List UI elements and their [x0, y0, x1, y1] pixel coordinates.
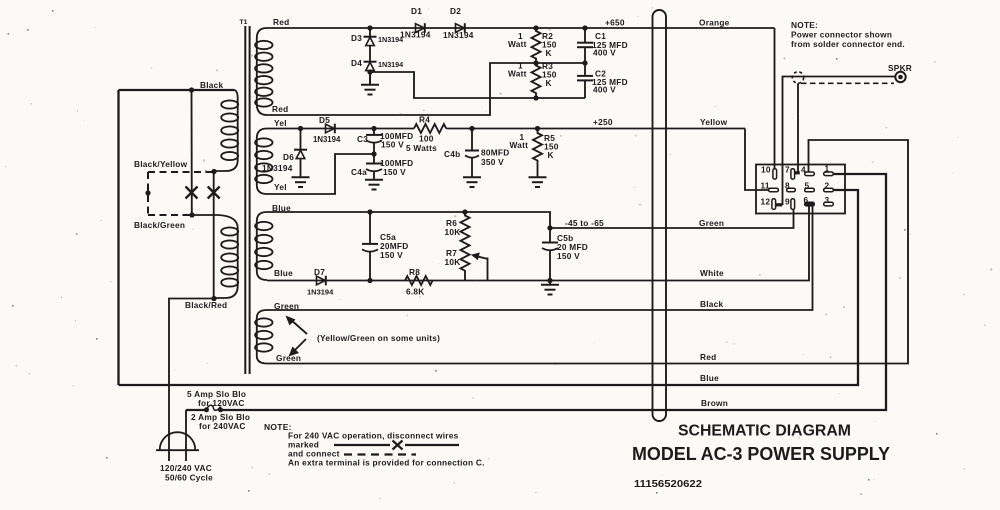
svg-text:K: K	[546, 48, 552, 58]
diode D1 1N3194	[400, 6, 431, 40]
potentiometer R7 10K	[445, 243, 470, 280]
resistor R2 150K 1 Watt	[508, 28, 557, 63]
svg-text:Watt: Watt	[510, 140, 529, 150]
node junction dot C5a top	[367, 209, 372, 214]
node C junction dot (Black/Green)	[189, 212, 194, 217]
capacitor C5a 20MFD 150V	[362, 212, 408, 281]
wire C3/C4a midpoint to Yel bottom	[267, 154, 374, 194]
svg-text:4: 4	[801, 164, 806, 174]
svg-text:+250: +250	[593, 117, 613, 127]
wire mains left (Black lead down left side)	[117, 90, 119, 385]
pin 3	[824, 195, 834, 206]
svg-text:Yellow: Yellow	[700, 117, 728, 127]
svg-text:80MFD: 80MFD	[481, 148, 509, 158]
cable oval grommet	[653, 10, 667, 421]
node junction dot D3 tap	[367, 25, 372, 30]
capacitor C3 100MFD 150V	[357, 129, 413, 155]
svg-text:D6: D6	[283, 152, 294, 162]
node junction dot C5b bottom	[547, 278, 552, 283]
node junction dot D6 tap	[298, 126, 303, 131]
wire White (bias out to pin 6)	[550, 206, 809, 281]
transformer T1 primary winding P1 (Black / Black-Yellow)	[215, 90, 239, 171]
svg-text:Red: Red	[273, 17, 289, 27]
node junction dot R2 top	[533, 25, 538, 30]
wire Orange drop to pin 10	[774, 28, 776, 169]
node junction dot R5 top	[535, 126, 540, 131]
pin 2	[824, 180, 834, 192]
transformer T1 secondary winding S3 (Blue)	[255, 212, 272, 280]
node junction dot R6 top	[462, 209, 467, 214]
ground below D4	[361, 72, 379, 95]
svg-text:8: 8	[785, 180, 790, 190]
node junction dot R2 bottom	[533, 60, 538, 65]
transformer T1 secondary winding S1 (Red)	[255, 28, 272, 115]
ground below C4b	[463, 177, 481, 187]
note solid line sample with X	[334, 441, 459, 450]
power connector body	[756, 165, 845, 214]
potentiometer R7 wiper arrow	[471, 253, 488, 281]
svg-text:Green: Green	[699, 218, 724, 228]
svg-text:C4a: C4a	[351, 167, 367, 177]
pin 1	[824, 164, 834, 176]
X disconnect mark 1	[186, 187, 198, 199]
wire Brown mains with fuse (to pin 1)	[186, 409, 205, 411]
pin 4	[801, 164, 814, 175]
svg-text:12: 12	[761, 196, 771, 206]
transformer T1 primary winding P2 (Black-Green / Black-Red)	[192, 215, 238, 298]
svg-text:7: 7	[785, 164, 790, 174]
svg-text:Black/Red: Black/Red	[185, 300, 227, 310]
note 240 VAC operation	[264, 422, 485, 468]
svg-text:D3: D3	[351, 33, 362, 43]
svg-text:from solder connector end.: from solder connector end.	[791, 39, 905, 49]
wire doubler midpoint rail	[267, 63, 585, 115]
wire circle to pin 7	[797, 83, 799, 172]
resistor R8 6.8K	[405, 267, 433, 297]
wire plug right prong	[185, 410, 187, 461]
pin 9	[785, 196, 795, 209]
svg-text:10: 10	[761, 164, 771, 174]
pin 11	[761, 180, 779, 192]
wire rail R4 to +250	[446, 128, 745, 130]
svg-text:Green: Green	[276, 353, 301, 363]
svg-text:K: K	[546, 78, 552, 88]
wire Red heater (to pin 4 via top)	[267, 140, 908, 364]
node B junction dot (Black/Yellow)	[211, 169, 216, 174]
ground below C5b	[541, 281, 559, 295]
capacitor C5b 20 MFD 150V	[542, 228, 588, 281]
pin 10	[761, 164, 777, 179]
svg-text:-45 to -65: -45 to -65	[565, 218, 604, 228]
note power connector	[791, 20, 905, 49]
node junction dot C5a bottom	[367, 278, 372, 283]
svg-text:1N3194: 1N3194	[307, 288, 334, 297]
wire rail C3 to R4	[374, 128, 414, 130]
svg-text:Red: Red	[700, 352, 716, 362]
diode D2 1N3194	[443, 6, 474, 40]
svg-text:5 Watts: 5 Watts	[406, 143, 437, 153]
svg-text:Red: Red	[272, 104, 288, 114]
svg-text:1: 1	[825, 164, 830, 174]
svg-text:100: 100	[419, 134, 434, 144]
transformer T1 core	[240, 19, 250, 374]
svg-text:1N3194: 1N3194	[262, 163, 293, 173]
capacitor C2 125 MFD 400V	[577, 63, 628, 98]
pin 8	[785, 180, 795, 192]
svg-text:Yel: Yel	[274, 182, 287, 192]
node A junction dot (Black)	[189, 87, 194, 92]
svg-text:for 240VAC: for 240VAC	[199, 421, 246, 431]
svg-text:R4: R4	[419, 115, 430, 125]
svg-text:1N3194: 1N3194	[313, 135, 341, 144]
ground below D6	[292, 177, 310, 187]
wire 120V strap 1 (X marked)	[191, 90, 193, 215]
svg-text:Yel: Yel	[274, 118, 287, 128]
diode D7 1N3194	[307, 267, 334, 297]
svg-text:10K: 10K	[445, 227, 461, 237]
node junction dot D4 anode	[367, 69, 372, 74]
svg-text:150 V: 150 V	[383, 167, 406, 177]
svg-text:11156520622: 11156520622	[634, 479, 702, 490]
capacitor C4a 100MFD 150V	[351, 154, 413, 180]
capacitor C1 125 MFD 400V	[577, 28, 628, 63]
diode D4 1N3194 (vertical)	[351, 58, 403, 72]
svg-text:R8: R8	[409, 267, 420, 277]
svg-text:MODEL AC-3 POWER SUPPLY: MODEL AC-3 POWER SUPPLY	[632, 444, 890, 464]
node D junction dot (Black/Red)	[211, 296, 216, 301]
svg-text:+650: +650	[605, 18, 625, 28]
svg-text:50/60 Cycle: 50/60 Cycle	[165, 473, 213, 483]
svg-text:1N3194: 1N3194	[443, 30, 474, 40]
dashed 240V connect wire horizontal top	[148, 171, 213, 173]
wire Blue top rail	[267, 212, 550, 228]
resistor R3 150K 1 Watt	[508, 61, 557, 99]
svg-text:6: 6	[804, 195, 809, 205]
svg-text:K: K	[548, 150, 554, 160]
node junction dot C4b top	[469, 126, 474, 131]
ground below C4a	[365, 180, 383, 190]
svg-text:3: 3	[825, 195, 830, 205]
dashed 240V connect wire vertical	[147, 172, 149, 215]
capacitor C4b 80MFD 350V	[444, 129, 509, 178]
svg-text:D1: D1	[411, 6, 422, 16]
svg-text:NOTE:: NOTE:	[791, 20, 818, 30]
svg-text:SCHEMATIC DIAGRAM: SCHEMATIC DIAGRAM	[678, 423, 851, 440]
dashed 240V connect wire horizontal bottom	[148, 214, 191, 216]
svg-text:9: 9	[785, 196, 790, 206]
wire Blue mains (to pin 2)	[119, 190, 859, 385]
svg-text:350 V: 350 V	[481, 157, 504, 167]
svg-text:5: 5	[805, 180, 810, 190]
svg-text:Black/Green: Black/Green	[134, 220, 185, 230]
svg-text:6.8K: 6.8K	[406, 287, 425, 297]
svg-text:White: White	[700, 268, 724, 278]
svg-text:150 V: 150 V	[557, 251, 580, 261]
svg-text:D4: D4	[351, 58, 362, 68]
svg-text:150 V: 150 V	[380, 250, 403, 260]
svg-text:Watt: Watt	[508, 69, 527, 79]
node junction dot C3 top	[371, 126, 376, 131]
svg-text:120/240 VAC: 120/240 VAC	[160, 463, 212, 473]
svg-text:An extra terminal is provided: An extra terminal is provided for connec…	[288, 458, 485, 468]
node junction dot C5b top / -45 rail	[547, 225, 552, 230]
node junction dot C1 top	[582, 25, 587, 30]
wire Black heater (to pin 6)	[267, 206, 813, 310]
fuse 2 Amp Slo Blo	[187, 389, 250, 431]
node junction dot C1 bottom	[582, 60, 587, 65]
note dashed line sample	[344, 453, 416, 455]
X disconnect mark 2	[208, 187, 220, 199]
diode D6 1N3194 (vertical)	[262, 129, 307, 178]
svg-text:C4b: C4b	[444, 149, 460, 159]
svg-text:for 120VAC: for 120VAC	[198, 398, 245, 408]
speaker dashed wire	[801, 82, 894, 84]
node junction dot R3 bottom	[533, 95, 538, 100]
wire +250 rail (Yel top)	[267, 128, 374, 130]
svg-text:Black: Black	[700, 299, 724, 309]
svg-text:Orange: Orange	[699, 18, 730, 28]
svg-text:1N3194: 1N3194	[378, 35, 403, 44]
svg-text:Brown: Brown	[701, 398, 728, 408]
wire +650 top rail	[267, 27, 775, 29]
svg-text:D7: D7	[314, 267, 325, 277]
pin 6	[804, 195, 815, 206]
AC plug 120/240 VAC	[156, 432, 213, 482]
wire Blue bottom rail	[267, 280, 550, 282]
svg-text:11: 11	[761, 180, 770, 190]
svg-text:Blue: Blue	[700, 373, 719, 383]
pin 5	[805, 180, 815, 192]
svg-text:400 V: 400 V	[593, 85, 616, 95]
pin 7	[785, 164, 800, 179]
pin 12	[761, 196, 783, 209]
speaker jack SPKR	[888, 63, 912, 82]
resistor R5 150K 1 Watt	[510, 129, 559, 178]
svg-text:2: 2	[825, 180, 830, 190]
svg-text:10K: 10K	[445, 257, 461, 267]
junction dot on dashed wire	[145, 190, 150, 195]
svg-text:Power connector shown: Power connector shown	[791, 30, 892, 40]
wire 120V strap 2 (X marked)	[213, 171, 215, 298]
wire -45 to -65 rail (Green)	[550, 210, 794, 229]
svg-text:Black/Yellow: Black/Yellow	[134, 159, 188, 169]
resistor R4 100 5 Watts	[406, 115, 446, 154]
svg-text:T1: T1	[240, 19, 248, 26]
wire D4 node to C2 bottom	[370, 72, 585, 98]
svg-text:D5: D5	[319, 115, 330, 125]
diode D3 1N3194 (vertical)	[351, 28, 403, 62]
wire Black primary top	[119, 89, 235, 91]
resistor R6 10K	[445, 212, 470, 243]
dashed connector circle	[792, 72, 803, 83]
svg-text:1N3194: 1N3194	[400, 30, 431, 40]
diode D5 1N3194	[313, 115, 341, 144]
transformer T1 secondary winding S2 (Yel)	[255, 129, 272, 195]
svg-text:D2: D2	[450, 6, 461, 16]
svg-text:SPKR: SPKR	[888, 63, 912, 73]
svg-text:(Yellow/Green on some units): (Yellow/Green on some units)	[317, 333, 440, 343]
svg-text:Watt: Watt	[508, 39, 527, 49]
svg-text:Black: Black	[200, 80, 224, 90]
ground below R5	[529, 177, 547, 187]
annotation arrows Yellow/Green	[286, 316, 441, 357]
svg-text:150 V: 150 V	[381, 140, 404, 150]
speaker feed wire solid	[783, 77, 793, 206]
svg-text:C3: C3	[357, 134, 368, 144]
svg-text:Blue: Blue	[274, 268, 293, 278]
wire Black/Red to plug left prong	[169, 299, 214, 462]
node junction dot C3/C4a midpoint	[371, 151, 376, 156]
transformer T1 secondary winding S4 (Green heater)	[255, 310, 272, 364]
svg-text:400 V: 400 V	[593, 48, 616, 58]
svg-text:1N3194: 1N3194	[378, 60, 403, 69]
wire Yellow drop to pin 11	[745, 129, 769, 191]
